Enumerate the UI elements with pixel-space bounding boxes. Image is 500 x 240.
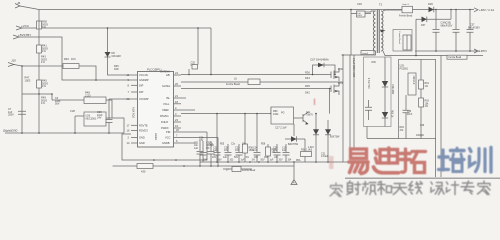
svg-text:R5A: R5A: [296, 159, 301, 162]
watermark tagline he: [378, 182, 392, 195]
svg-text:R35: R35: [305, 84, 310, 88]
capacitor C33: [403, 95, 410, 139]
node box dots: [153, 159, 155, 161]
svg-text:VCC: VCC: [165, 136, 171, 140]
svg-text:10V: 10V: [212, 157, 217, 159]
wire HV drop C30: [350, 10, 352, 56]
svg-text:14: 14: [127, 141, 130, 145]
svg-text:J10: J10: [11, 59, 16, 63]
feedback block U29: [399, 60, 436, 139]
wire lower divider: [22, 94, 52, 100]
wire RTN rail: [415, 50, 480, 52]
svg-text:104: 104: [288, 160, 293, 162]
svg-text:T2: T2: [379, 3, 383, 7]
wire mid rail: [181, 113, 294, 115]
svg-text:C36: C36: [70, 109, 75, 113]
transformer item box: [361, 51, 374, 55]
wire bottom rail: [200, 161, 356, 163]
pin 7 VCC: [174, 137, 219, 139]
pin 6 GNDB: [174, 142, 197, 144]
svg-text:VCLL: VCLL: [163, 102, 170, 106]
svg-text:2.2D: 2.2D: [85, 93, 91, 97]
pin 3 RSVD1: [174, 115, 182, 117]
svg-text:C39: C39: [420, 125, 425, 127]
svg-text:1K3: 1K3: [71, 57, 76, 61]
wire fb box drop: [435, 139, 437, 178]
pin 22 VCOMP: [131, 98, 138, 100]
svg-text:1003: 1003: [25, 78, 31, 82]
diode D40 aux: [384, 57, 386, 127]
svg-text:1uF: 1uF: [282, 149, 287, 152]
svg-text:R66 1k: R66 1k: [391, 110, 393, 118]
svg-text:1%: 1%: [246, 157, 249, 159]
wire C30 left: [351, 13, 357, 15]
svg-text:PIR: PIR: [166, 130, 170, 134]
svg-text:103: 103: [235, 149, 240, 152]
node hb junction: [210, 74, 212, 76]
svg-text:GREF: GREF: [154, 133, 158, 141]
svg-text:103: 103: [230, 160, 235, 162]
svg-text:D42: D42: [305, 91, 310, 95]
svg-text:GNDMP: GNDMP: [139, 78, 149, 82]
wire secondary return drop: [440, 56, 442, 178]
svg-text:Ferrite Bead: Ferrite Bead: [449, 56, 462, 59]
pin 23 FNHX: [174, 121, 182, 123]
capacitor C28: [225, 144, 232, 162]
svg-text:2: 2: [128, 136, 130, 140]
diode D37 second: [416, 19, 451, 55]
wire bottom right rail: [345, 177, 500, 179]
wire C25 drop: [197, 28, 199, 65]
resistor R45: [37, 80, 42, 88]
svg-text:FWDX: FWDX: [161, 126, 169, 130]
net label A: [293, 162, 295, 179]
resistor R46: [22, 65, 63, 67]
diode D8: [105, 52, 111, 57]
wire VCC rail: [22, 27, 211, 29]
svg-text:Ferrite Bead: Ferrite Bead: [398, 32, 401, 45]
wire secondary return right: [441, 55, 483, 57]
connector J6: [20, 6, 39, 10]
svg-text:C33: C33: [407, 111, 412, 113]
transistor Q31: [331, 82, 339, 95]
wire VCOMP: [109, 98, 131, 100]
diode D41 aux: [382, 112, 388, 118]
watermark char tuo: [401, 149, 426, 173]
shunt reg U30: [408, 73, 416, 95]
pin 11 VCC1N: [131, 74, 138, 76]
watermark tagline ji: [447, 182, 459, 195]
svg-text:0.01uF: 0.01uF: [321, 155, 329, 158]
svg-text:GNDB: GNDB: [162, 141, 170, 145]
svg-text:R55: R55: [220, 144, 225, 146]
node r49 gnd: [38, 132, 40, 134]
pin 24 HB: [174, 74, 182, 76]
pin 17 RSVTE: [131, 124, 138, 126]
inductor L6 ferrite bead: [181, 81, 343, 83]
svg-text:D37: D37: [421, 24, 426, 27]
capacitor C37: [467, 10, 474, 52]
svg-text:DIP: DIP: [139, 90, 144, 94]
svg-text:RSVTE: RSVTE: [139, 123, 148, 127]
transistor Q30: [331, 68, 339, 81]
pin 9 GNDMP: [131, 79, 138, 81]
svg-text:9%: 9%: [206, 147, 210, 150]
svg-text:24V: 24V: [97, 117, 102, 120]
svg-text:430: 430: [141, 170, 146, 174]
resistor R5A: [301, 152, 312, 157]
node J10 junction: [21, 65, 23, 67]
capacitor C7: [18, 111, 26, 114]
svg-text:VCOMP: VCOMP: [139, 97, 149, 101]
svg-text:GND: GND: [139, 136, 145, 140]
inner gnd box: [122, 132, 207, 160]
svg-text:D27 1N4148Wx: D27 1N4148Wx: [311, 58, 330, 62]
resistor chain R38: [37, 21, 42, 29]
capacitor C31: [197, 141, 204, 166]
pin 19 FWDX: [174, 127, 182, 129]
svg-text:D43: D43: [305, 76, 310, 80]
watermark tagline zhuan: [461, 181, 474, 194]
svg-text:RSVD3: RSVD3: [139, 129, 148, 133]
diode BZX84: [327, 120, 329, 162]
wire primary top: [365, 11, 371, 12]
resistor R61: [420, 60, 422, 99]
svg-text:C27 2.2uF: C27 2.2uF: [275, 127, 287, 130]
op-amp controller U25: [138, 72, 174, 148]
inductor L9 bead vertical: [393, 30, 412, 52]
node 5VSTBY junction: [95, 79, 97, 81]
wire J10 feed: [14, 65, 22, 134]
svg-text:XREF: XREF: [162, 108, 169, 112]
svg-text:4.7uF 50V: 4.7uF 50V: [367, 78, 369, 89]
svg-text:22nF: 22nF: [407, 114, 413, 116]
watermark char di: [374, 148, 399, 173]
svg-text:BAV70W: BAV70W: [288, 143, 299, 146]
ferrite bead label box: [447, 55, 467, 59]
svg-text:PS2561: PS2561: [400, 67, 409, 70]
wire R46 to pin9: [79, 66, 96, 80]
svg-text:18: 18: [175, 100, 178, 104]
svg-text:L6: L6: [234, 78, 237, 81]
connector +48V: [474, 8, 478, 12]
svg-text:DIP: DIP: [139, 83, 144, 87]
svg-text:D36: D36: [428, 2, 433, 6]
svg-text:Q30: Q30: [338, 68, 343, 71]
svg-text:6: 6: [176, 139, 178, 143]
wire C25 stub: [188, 69, 190, 75]
node 430 line dots: [183, 165, 185, 167]
node gnd junctions: [21, 132, 23, 134]
watermark tagline pin: [363, 182, 376, 195]
svg-text:GATEL: GATEL: [162, 84, 171, 88]
svg-text:PG: PG: [281, 112, 285, 115]
svg-text:Item 3: Item 3: [403, 3, 410, 6]
wire Q29 drop: [293, 124, 295, 136]
wire gate LO: [181, 88, 331, 90]
wire ground rail: [5, 132, 124, 134]
node R45 bottom: [38, 93, 40, 95]
svg-text:50V: 50V: [234, 157, 239, 159]
pin 2 GND: [131, 137, 138, 139]
pin 20 GATEL: [174, 85, 182, 87]
svg-text:16V: 16V: [218, 160, 223, 162]
capacitor C20: [274, 144, 281, 162]
svg-text:630V: 630V: [357, 15, 362, 17]
wire R48 feed: [52, 99, 84, 101]
resistor R57: [267, 144, 269, 162]
watermark tagline jia: [478, 181, 491, 195]
connector +5VSTBY: [13, 35, 19, 39]
svg-text:8: 8: [128, 83, 130, 87]
node drain top: [342, 54, 344, 56]
svg-text:100k: 100k: [273, 113, 279, 116]
svg-text:VCC1N: VCC1N: [139, 73, 148, 77]
pin 7 DIP: [131, 91, 138, 93]
diode D45: [315, 114, 317, 162]
svg-text:AUX ADJ: AUX ADJ: [132, 107, 136, 119]
wire C30 right: [365, 13, 371, 15]
svg-text:7: 7: [128, 90, 130, 94]
svg-text:C2x: C2x: [231, 144, 236, 146]
svg-text:16V: 16V: [199, 139, 204, 142]
resistor R63: [419, 98, 424, 107]
resistor R5F box: [270, 107, 272, 114]
wire ISL drop: [329, 89, 331, 114]
svg-text:FNHX: FNHX: [161, 120, 168, 124]
wire 5VSTBY: [19, 37, 131, 80]
optocoupler U26: [84, 112, 106, 126]
diode D27 bypass: [313, 65, 336, 75]
wire drain rail: [342, 55, 344, 162]
svg-text:7: 7: [176, 134, 178, 138]
svg-text:47k: 47k: [400, 129, 405, 132]
watermark tagline jia partial: [330, 183, 342, 197]
watermark red fragment: [329, 156, 334, 169]
wire gate HI: [181, 74, 331, 76]
svg-text:Item3: Item3: [363, 52, 369, 55]
svg-text:B3X70W: B3X70W: [330, 136, 340, 139]
wire VCC corner: [210, 28, 212, 75]
wire secondary bottom: [383, 51, 441, 56]
svg-text:+5VSTBY: +5VSTBY: [18, 33, 31, 37]
diode BAV70W: [285, 138, 305, 140]
resistor R56: [244, 114, 246, 144]
svg-text:20: 20: [175, 82, 178, 86]
node rtn dots: [435, 50, 437, 52]
svg-text:RSVD1: RSVD1: [160, 114, 169, 118]
capacitor C26: [200, 141, 207, 162]
svg-text:20V: 20V: [273, 149, 278, 152]
svg-text:20: 20: [176, 128, 179, 132]
node mid rail dots: [216, 113, 218, 115]
watermark char pei: [439, 148, 465, 172]
svg-text:431MLX: 431MLX: [412, 76, 415, 85]
inductor L8 ferrite bead: [402, 6, 413, 13]
capacitor C38: [365, 100, 372, 120]
svg-text:70876: 70876: [306, 114, 313, 117]
svg-text:3: 3: [175, 112, 177, 116]
wire D37 up: [450, 10, 452, 20]
pin 16 RSVD3: [131, 130, 138, 132]
pin 21 ISL: [174, 97, 187, 99]
svg-text:ISL: ISL: [166, 96, 170, 100]
pin 20 PIR: [174, 131, 208, 133]
svg-text:0.1uF 630V MMF: 0.1uF 630V MMF: [352, 58, 355, 78]
wire divider string: [38, 10, 40, 95]
node output rail dots: [435, 9, 437, 11]
watermark char xun: [470, 148, 492, 173]
wire R48 out: [106, 100, 112, 118]
svg-text:C30: C30: [357, 2, 362, 6]
svg-text:04D: 04D: [114, 68, 119, 71]
svg-text:50V: 50V: [55, 103, 60, 106]
svg-text:1%: 1%: [425, 85, 429, 88]
capacitor resonant C: [350, 55, 354, 150]
connector +VCC: [16, 26, 22, 30]
svg-text:4n7: 4n7: [253, 149, 258, 152]
svg-text:A: A: [293, 181, 295, 185]
svg-text:16V: 16V: [254, 157, 259, 159]
svg-text:+VCC: +VCC: [21, 24, 30, 28]
svg-text:R36: R36: [305, 71, 310, 75]
svg-text:1%: 1%: [425, 105, 429, 108]
svg-text:Ferrite Bead: Ferrite Bead: [242, 169, 256, 172]
transistor Q29: [294, 112, 309, 124]
svg-text:19: 19: [175, 124, 178, 128]
wire secondary top: [383, 10, 402, 11]
svg-text:[Digital]GND: [Digital]GND: [2, 129, 18, 133]
capacitor C23: [236, 144, 243, 162]
aux snubber box: [364, 57, 392, 127]
svg-text:+48V / 2.1A: +48V / 2.1A: [479, 8, 494, 12]
svg-text:1uF: 1uF: [194, 147, 199, 150]
diode D36: [429, 7, 434, 13]
svg-text:10V: 10V: [224, 149, 229, 152]
capacitor C32: [208, 141, 215, 166]
wire U26 left: [75, 115, 84, 117]
capacitor C34: [433, 10, 440, 52]
svg-text:1.0k3: 1.0k3: [308, 147, 314, 149]
capacitor C22: [214, 114, 221, 162]
svg-text:680uF/35V: 680uF/35V: [468, 26, 480, 29]
svg-text:R46: R46: [64, 57, 69, 61]
svg-text:1uF: 1uF: [213, 149, 218, 152]
svg-text:NEC2561: NEC2561: [86, 118, 97, 121]
node vcc drop: [107, 27, 109, 29]
wire U26 right: [106, 118, 124, 133]
resistor R33 430: [113, 165, 294, 167]
pin 14 GND: [131, 142, 138, 144]
svg-text:CR4148: CR4148: [112, 55, 122, 58]
svg-text:n47: n47: [274, 157, 279, 159]
svg-text:20V: 20V: [279, 160, 284, 162]
inductor L7 ferrite bead: [223, 168, 252, 170]
svg-text:1uF: 1uF: [270, 160, 275, 162]
svg-text:680uF/35V: 680uF/35V: [441, 24, 453, 27]
svg-text:1uF: 1uF: [223, 157, 228, 159]
svg-text:GND: GND: [139, 141, 145, 145]
wire VCC drop: [108, 28, 132, 75]
svg-text:4: 4: [175, 106, 177, 110]
svg-text:1N4148W: 1N4148W: [391, 84, 393, 95]
node gate lo drop: [329, 88, 331, 90]
pin 18 VCLL: [174, 103, 182, 105]
wire +48V top rail: [39, 9, 474, 11]
watermark red tick: [314, 99, 316, 106]
svg-text:+RTN: +RTN: [479, 49, 487, 53]
capacitor C24: [254, 114, 261, 162]
node bottom rail dots: [216, 161, 218, 163]
pin 8 DIP: [131, 84, 138, 86]
watermark tagline she2: [431, 182, 444, 195]
resistor R49: [38, 94, 40, 133]
capacitor C29: [106, 99, 113, 133]
capacitor C30: [357, 11, 366, 17]
resistor R48: [84, 97, 106, 104]
svg-text:HB: HB: [166, 73, 170, 77]
svg-text:Ferrite Bead: Ferrite Bead: [226, 83, 240, 86]
svg-text:1%: 1%: [252, 160, 255, 162]
svg-text:D39: D39: [372, 62, 377, 64]
svg-text:16: 16: [127, 129, 130, 133]
watermark tagline tian: [393, 184, 407, 195]
watermark char yi: [349, 149, 368, 174]
wire vcc drop2: [217, 138, 219, 167]
svg-text:250V: 250V: [8, 114, 14, 117]
wire primary bottom: [342, 51, 376, 55]
svg-text:1uF: 1uF: [241, 160, 246, 162]
connector J10: [8, 63, 14, 67]
resistor R41: [37, 45, 42, 53]
svg-text:17: 17: [127, 123, 130, 127]
svg-text:1000pF: 1000pF: [416, 134, 425, 137]
watermark tagline she: [347, 181, 361, 195]
pin 4 XREF: [174, 109, 196, 111]
svg-text:R58: R58: [261, 144, 266, 146]
svg-text:21: 21: [175, 94, 178, 98]
svg-text:50V: 50V: [261, 160, 266, 162]
connector +RTN: [474, 49, 478, 53]
capacitor C36b: [453, 10, 460, 52]
svg-text:GATEHI: GATEHI: [160, 70, 170, 74]
svg-text:23: 23: [175, 118, 178, 122]
svg-text:Q31: Q31: [338, 82, 343, 85]
svg-text:Ferrite Bead: Ferrite Bead: [399, 15, 413, 18]
svg-text:24: 24: [175, 71, 178, 75]
capacitor C19: [283, 144, 290, 162]
wire aux to opto: [367, 127, 399, 139]
watermark tagline xian: [409, 182, 423, 195]
svg-text:J6: J6: [17, 1, 21, 5]
